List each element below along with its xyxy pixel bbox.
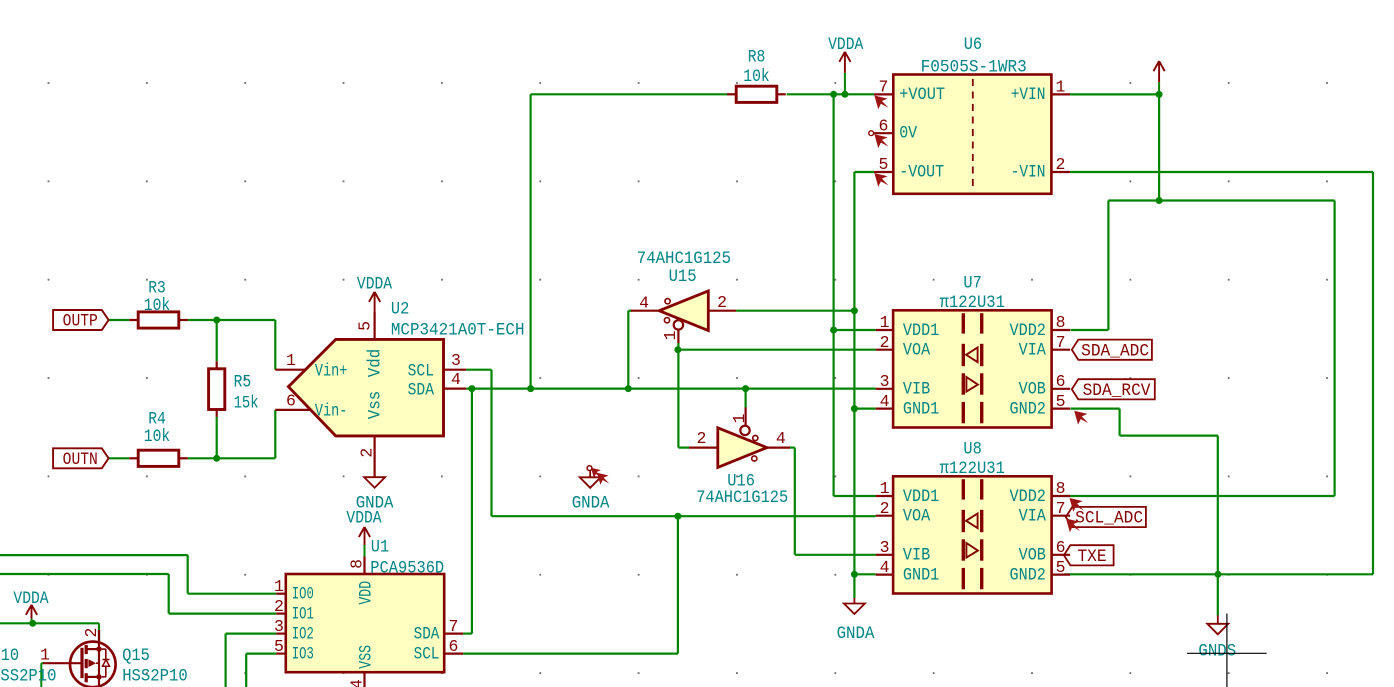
svg-text:4: 4 [451, 370, 461, 389]
svg-text:6: 6 [1056, 372, 1066, 391]
svg-text:+VOUT: +VOUT [899, 85, 945, 105]
svg-text:2: 2 [82, 628, 101, 638]
svg-text:MCP3421A0T-ECH: MCP3421A0T-ECH [391, 321, 525, 341]
svg-text:HSS2P10: HSS2P10 [122, 667, 188, 687]
svg-text:VIB: VIB [903, 380, 930, 400]
svg-text:1: 1 [661, 330, 680, 340]
svg-text:1: 1 [730, 413, 749, 423]
svg-text:10k: 10k [144, 427, 170, 447]
svg-text:VDDA: VDDA [357, 274, 393, 294]
svg-text:7: 7 [1056, 333, 1066, 352]
svg-text:SCL: SCL [408, 361, 434, 381]
svg-text:10k: 10k [743, 67, 769, 87]
svg-text:Q10: Q10 [0, 646, 19, 666]
svg-text:Vdd: Vdd [365, 349, 385, 378]
svg-text:8: 8 [1056, 313, 1066, 332]
svg-text:3: 3 [880, 372, 890, 391]
svg-text:1: 1 [286, 351, 296, 370]
svg-text:Vin+: Vin+ [315, 361, 347, 381]
svg-text:VDD1: VDD1 [903, 487, 939, 507]
svg-text:7: 7 [449, 617, 459, 636]
svg-text:3: 3 [451, 351, 461, 370]
svg-text:VOA: VOA [903, 341, 931, 361]
svg-text:1: 1 [1056, 78, 1066, 97]
svg-text:GNDA: GNDA [837, 624, 875, 644]
svg-text:R5: R5 [234, 373, 252, 393]
svg-text:VOB: VOB [1019, 546, 1046, 566]
svg-text:5: 5 [879, 155, 889, 174]
svg-text:SCL: SCL [414, 644, 440, 664]
svg-text:U7: U7 [963, 274, 981, 294]
svg-text:1: 1 [274, 577, 284, 596]
svg-text:HSS2P10: HSS2P10 [0, 667, 57, 687]
svg-text:VDD2: VDD2 [1010, 321, 1046, 341]
svg-text:8: 8 [1056, 479, 1066, 498]
svg-text:2: 2 [717, 293, 727, 312]
svg-text:GNDA: GNDA [572, 494, 610, 514]
svg-text:Vin-: Vin- [315, 402, 347, 422]
svg-text:3: 3 [274, 617, 284, 636]
svg-text:2: 2 [697, 429, 707, 448]
svg-text:5: 5 [274, 637, 284, 656]
svg-text:Vss: Vss [365, 391, 385, 420]
svg-text:PCA9536D: PCA9536D [370, 558, 444, 578]
svg-text:7: 7 [1056, 499, 1066, 518]
svg-text:GND2: GND2 [1010, 565, 1046, 585]
svg-text:π122U31: π122U31 [940, 293, 1005, 313]
svg-text:VDDA: VDDA [13, 589, 49, 609]
svg-text:15k: 15k [234, 394, 259, 414]
svg-text:GND1: GND1 [903, 565, 939, 585]
svg-text:VDD1: VDD1 [903, 321, 939, 341]
svg-text:U1: U1 [371, 538, 389, 558]
svg-text:VDDA: VDDA [828, 35, 864, 55]
svg-text:VDD2: VDD2 [1010, 487, 1046, 507]
svg-text:-VOUT: -VOUT [899, 163, 944, 183]
svg-text:VIA: VIA [1019, 507, 1047, 527]
svg-text:6: 6 [286, 391, 296, 410]
svg-text:GNDS: GNDS [1198, 641, 1236, 661]
svg-text:2: 2 [880, 333, 890, 352]
svg-text:VDD: VDD [356, 581, 376, 605]
svg-text:-VIN: -VIN [1011, 163, 1046, 183]
svg-text:7: 7 [879, 78, 889, 97]
svg-text:5: 5 [1056, 558, 1066, 577]
svg-text:2: 2 [880, 499, 890, 518]
svg-text:2: 2 [1056, 155, 1066, 174]
svg-text:VOA: VOA [903, 507, 931, 527]
svg-text:SDA: SDA [414, 624, 440, 644]
svg-text:+VIN: +VIN [1011, 85, 1046, 105]
svg-text:π122U31: π122U31 [940, 459, 1005, 479]
svg-text:GND1: GND1 [903, 399, 939, 419]
svg-text:SDA_ADC: SDA_ADC [1081, 341, 1149, 361]
svg-text:SCL_ADC: SCL_ADC [1075, 509, 1143, 529]
svg-text:4: 4 [639, 293, 649, 312]
svg-text:GND2: GND2 [1010, 399, 1046, 419]
svg-text:VIA: VIA [1019, 341, 1047, 361]
svg-text:4: 4 [776, 429, 786, 448]
svg-text:OUTP: OUTP [63, 312, 98, 332]
svg-text:R8: R8 [748, 47, 766, 67]
svg-text:SDA: SDA [408, 380, 435, 400]
svg-text:6: 6 [449, 637, 459, 656]
svg-text:5: 5 [1056, 392, 1066, 411]
svg-text:74AHC1G125: 74AHC1G125 [637, 249, 731, 269]
svg-text:OUTN: OUTN [63, 450, 98, 470]
svg-text:4: 4 [880, 558, 890, 577]
svg-text:U2: U2 [391, 300, 409, 320]
svg-text:F0505S-1WR3: F0505S-1WR3 [921, 57, 1027, 77]
svg-text:2: 2 [358, 448, 377, 458]
svg-text:U8: U8 [963, 440, 981, 460]
svg-text:0V: 0V [899, 124, 917, 144]
svg-text:U15: U15 [669, 267, 697, 287]
svg-text:IO0: IO0 [292, 585, 314, 605]
svg-text:5: 5 [355, 321, 374, 331]
svg-text:IO1: IO1 [292, 604, 314, 624]
svg-text:8: 8 [347, 559, 366, 569]
svg-text:6: 6 [1056, 538, 1066, 557]
svg-text:U6: U6 [964, 35, 982, 55]
svg-text:Q15: Q15 [122, 646, 150, 666]
svg-text:4: 4 [880, 392, 890, 411]
svg-text:VSS: VSS [356, 645, 376, 669]
svg-text:10k: 10k [144, 296, 170, 316]
svg-text:1: 1 [880, 479, 890, 498]
svg-text:1: 1 [40, 646, 50, 665]
svg-text:IO3: IO3 [292, 644, 314, 664]
svg-text:SDA_RCV: SDA_RCV [1083, 381, 1151, 401]
svg-text:VOB: VOB [1019, 380, 1046, 400]
svg-text:4: 4 [347, 679, 366, 687]
svg-text:6: 6 [879, 116, 889, 135]
svg-text:2: 2 [274, 597, 284, 616]
svg-text:3: 3 [880, 538, 890, 557]
svg-text:1: 1 [880, 313, 890, 332]
svg-text:TXE: TXE [1077, 547, 1106, 567]
svg-text:IO2: IO2 [292, 624, 314, 644]
svg-text:74AHC1G125: 74AHC1G125 [696, 488, 788, 508]
svg-text:VIB: VIB [903, 546, 930, 566]
svg-text:VDDA: VDDA [346, 508, 382, 528]
